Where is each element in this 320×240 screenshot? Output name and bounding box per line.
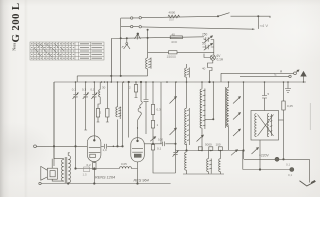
wire box to mains (259, 140, 261, 170)
switch S5 (150, 137, 156, 142)
switch S11 (252, 148, 259, 155)
svg-text:2: 2 (129, 86, 131, 90)
wire right of box (279, 119, 284, 121)
IF box (251, 111, 279, 141)
svg-text:250: 250 (202, 33, 208, 37)
svg-text:1,5: 1,5 (83, 173, 88, 177)
trimmer C1 (204, 37, 214, 41)
coil L11 (208, 151, 210, 159)
switch S2 arm (218, 13, 230, 17)
tube V1 label (95, 175, 115, 179)
antenna feeder pair (221, 73, 294, 82)
switch S7 (233, 113, 241, 120)
svg-text:1: 1 (157, 123, 159, 127)
resistor R9b (151, 121, 154, 129)
capacitor C12 (175, 82, 177, 150)
wire mid row (176, 150, 238, 152)
svg-text:0,25: 0,25 (287, 104, 293, 108)
resistor R8 (152, 82, 154, 105)
resistor R10 (283, 82, 285, 101)
svg-text:50: 50 (202, 41, 206, 45)
svg-text:5: 5 (268, 92, 270, 96)
switch S6 (233, 97, 241, 104)
svg-text:0,3: 0,3 (157, 108, 162, 112)
cross wires (258, 115, 274, 137)
svg-text:RES 964: RES 964 (134, 178, 149, 182)
wire 4V drop (257, 16, 259, 29)
speaker (47, 168, 57, 179)
svg-text:30: 30 (102, 85, 106, 89)
tube V2 (131, 138, 145, 162)
switch S3 row (121, 27, 255, 30)
wire left vertical (53, 82, 55, 166)
wire col 128.7 (128, 82, 130, 138)
svg-text:4000: 4000 (171, 40, 178, 44)
wire (205, 82, 213, 119)
svg-text:0,05: 0,05 (121, 162, 127, 166)
svg-text:G 200 L: G 200 L (10, 3, 22, 43)
svg-text:0,1: 0,1 (82, 87, 87, 91)
mains plug (300, 181, 316, 186)
svg-text:0,1: 0,1 (72, 87, 77, 91)
svg-text:0,1: 0,1 (157, 147, 162, 151)
svg-text:2: 2 (100, 111, 102, 115)
switch wafer A (111, 37, 204, 39)
svg-text:≈4 V: ≈4 V (260, 23, 269, 28)
switch S10 (231, 150, 238, 156)
coil L3 (99, 82, 101, 90)
svg-text:0,1: 0,1 (288, 173, 293, 177)
capacitor C15 (218, 147, 222, 151)
antenna (301, 72, 306, 83)
trimmer C3 (75, 82, 77, 92)
wire tube1 grid cap (93, 82, 95, 140)
component R9 (151, 145, 154, 151)
svg-text:100: 100 (169, 18, 174, 22)
svg-text:1,0: 1,0 (103, 148, 108, 152)
svg-text:A: A (280, 69, 283, 73)
resistor R3 (148, 51, 214, 53)
svg-text:≈220V: ≈220V (259, 154, 270, 158)
pot P2 (290, 168, 294, 172)
wire left vertical to transformer (52, 82, 64, 168)
svg-text:RENS 1264: RENS 1264 (95, 175, 115, 179)
wire tube2 grid (137, 127, 139, 141)
wire (213, 40, 215, 56)
coil L6 (185, 68, 187, 77)
coil L13 (255, 114, 257, 137)
svg-text:100: 100 (216, 143, 221, 147)
switch S4 (208, 60, 213, 82)
crease artifact (309, 103, 311, 130)
bottom bus (39, 182, 41, 184)
capacitor C11 (160, 82, 162, 144)
resistor R7 (135, 82, 137, 85)
coil L2 (146, 58, 148, 69)
trimmer C2 (203, 45, 214, 49)
parts table (30, 42, 104, 60)
wire col 85.7 (84, 100, 87, 130)
tube V1 (87, 136, 101, 162)
svg-text:0,1A: 0,1A (217, 57, 224, 61)
coil L12 (220, 151, 222, 159)
trimmer C5 (91, 92, 97, 100)
switch S8 (233, 129, 241, 136)
trimmer C13 (173, 150, 179, 158)
wire bottom (183, 173, 224, 175)
label 4V (260, 23, 269, 28)
capacitor C10 (144, 82, 149, 134)
svg-text:15000: 15000 (167, 55, 177, 59)
switch S1 row (121, 16, 218, 18)
resistor R4 (98, 104, 100, 109)
capacitor C16 (262, 82, 267, 111)
svg-text:100: 100 (158, 138, 163, 142)
pot P1 (275, 157, 279, 161)
capacitor C8 (101, 144, 122, 149)
transformer T1 (65, 157, 67, 183)
svg-text:5000: 5000 (205, 143, 212, 147)
resistor R2 (170, 36, 182, 39)
svg-text:40: 40 (202, 67, 206, 71)
svg-text:40: 40 (172, 33, 176, 37)
coil L10 (228, 82, 230, 87)
capacitor C9 (84, 167, 90, 172)
lamp L1 (210, 55, 215, 60)
svg-text:Nora: Nora (12, 43, 17, 51)
wire (120, 18, 122, 76)
resistor R6 (93, 161, 95, 164)
mains wire (244, 159, 309, 182)
resistor R5 (106, 82, 108, 109)
svg-text:E: E (275, 73, 277, 77)
grid lead squiggle (138, 82, 143, 129)
wire (243, 151, 290, 170)
switch S12 (170, 97, 177, 104)
grid line wire (34, 145, 37, 148)
ground (285, 82, 291, 93)
upper shelf wire (77, 76, 147, 82)
coil L14 (267, 114, 269, 137)
coil L9 (201, 82, 203, 89)
svg-text:0,2: 0,2 (87, 163, 92, 167)
switch S13 (170, 128, 177, 135)
bottom grid wire (76, 168, 120, 170)
capacitor C14b (198, 147, 202, 151)
switch S9 (197, 135, 204, 142)
title Nora G200L (10, 3, 22, 51)
coil L7 (186, 82, 188, 108)
svg-text:0,1: 0,1 (286, 162, 291, 166)
resistor R1 (168, 15, 180, 18)
coil L8 (186, 144, 188, 152)
wire col 75.5 (75, 100, 77, 169)
wire (243, 82, 245, 151)
label 220V (259, 154, 270, 158)
junction dots on bus (75, 81, 305, 83)
switch wafer B (126, 38, 128, 42)
tube V2 label (134, 178, 149, 182)
coil L4 (117, 82, 119, 107)
svg-text:4000: 4000 (169, 11, 176, 15)
coil L5 (120, 167, 138, 169)
trimmer C4 (85, 82, 87, 92)
capacitor C14 (209, 147, 213, 151)
wire (122, 82, 124, 146)
main chassis bus (54, 81, 306, 83)
